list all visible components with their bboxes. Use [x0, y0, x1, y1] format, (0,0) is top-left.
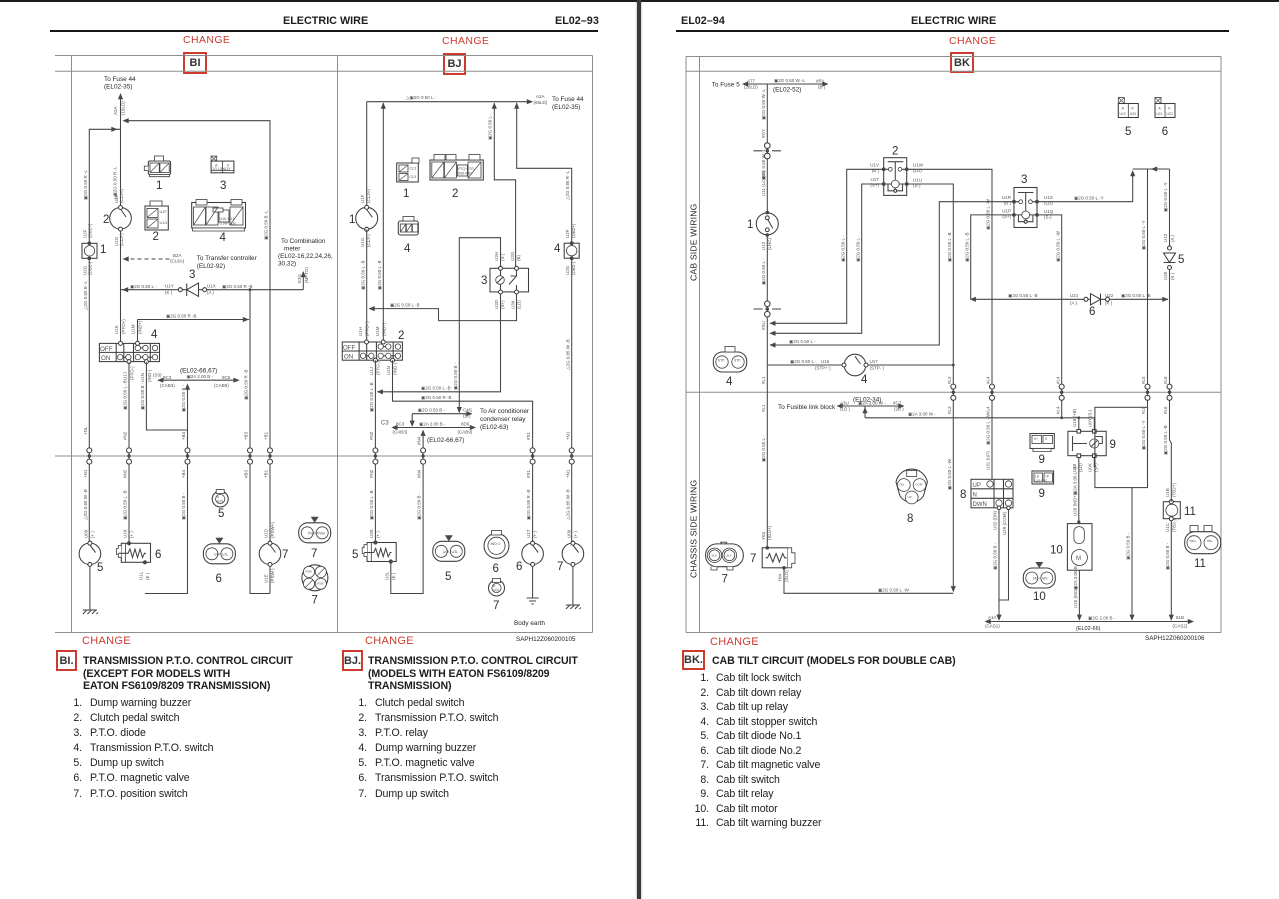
ground: BJ dump up switch earth — [566, 605, 581, 609]
connector face 1 BI — [144, 156, 170, 177]
svg-text:U31 (UP): U31 (UP) — [986, 451, 991, 470]
wire: BK relay9 S- stub — [1093, 418, 1095, 430]
svg-text:#L1: #L1 — [761, 376, 766, 384]
svg-text:5: 5 — [218, 508, 224, 520]
svg-text:PSW: PSW — [317, 531, 326, 535]
svg-text:TB2+: TB2+ — [1190, 539, 1198, 543]
component 1 BK: cab tilt lock switch — [756, 211, 778, 237]
svg-text:C4G: C4G — [463, 408, 473, 413]
svg-text:U3G: U3G — [510, 251, 515, 261]
svg-text:30,32): 30,32) — [278, 261, 296, 268]
svg-text:▣2G 0.50 L -: ▣2G 0.50 L - — [130, 284, 157, 289]
svg-text:(B-): (B-) — [463, 414, 471, 419]
svg-text:To Combination: To Combination — [281, 238, 326, 245]
svg-text:▣2G 0.50 B -L: ▣2G 0.50 B -L — [264, 210, 269, 240]
svg-text:Body earth: Body earth — [514, 620, 545, 627]
svg-text:△2G 0.50 B -L: △2G 0.50 B -L — [83, 281, 88, 310]
svg-text:▣2G 0.50 L -Y: ▣2G 0.50 L -Y — [1074, 196, 1104, 201]
svg-text:7: 7 — [557, 561, 563, 573]
svg-text:M: M — [1076, 556, 1081, 562]
component 4 BK: cab tilt stopper switch row — [767, 364, 953, 366]
svg-text:(CL3+): (CL3+) — [119, 189, 124, 203]
svg-text:U1F: U1F — [360, 194, 365, 203]
svg-text:(CAS2): (CAS2) — [1173, 624, 1188, 629]
svg-text:(S3): (S3) — [153, 373, 162, 378]
svg-text:(CAB3): (CAB3) — [160, 383, 175, 388]
wire: BI diode output down to position switch loop — [250, 290, 270, 594]
wire: BK valve return to chassis — [784, 569, 953, 593]
svg-text:A2A: A2A — [113, 106, 118, 115]
red box BK. (bottom) — [682, 650, 705, 670]
svg-text:UP: UP — [973, 483, 981, 489]
wire: BI IND vertical into switch — [137, 320, 139, 344]
svg-text:#L2: #L2 — [947, 376, 952, 384]
svg-text:(B): (B) — [516, 255, 521, 262]
wire: BK relay2 S- wire down — [907, 184, 954, 591]
svg-text:U1T: U1T — [526, 529, 531, 538]
connector pair: BI left wire at split — [87, 448, 92, 464]
svg-text:(EL02-35): (EL02-35) — [104, 84, 132, 91]
wire: BI branch to buzzer (2G 0.50 R -L) — [89, 129, 120, 243]
svg-text:#L6: #L6 — [1163, 376, 1168, 384]
svg-text:1: 1 — [100, 244, 106, 256]
svg-text:▣2G 0.50 L -: ▣2G 0.50 L - — [855, 235, 860, 262]
svg-text:U1F: U1F — [160, 210, 168, 214]
svg-text:#L4: #L4 — [986, 376, 991, 384]
svg-text:▣2G 0.50 L -: ▣2G 0.50 L - — [488, 113, 493, 140]
wire: BK motor to bottom rail — [1078, 570, 1080, 619]
svg-text:U09: U09 — [84, 529, 89, 538]
svg-text:U1T: U1T — [870, 177, 879, 182]
svg-text:(E ): (E ) — [391, 572, 396, 580]
connector pair: BJ ind wire at split — [530, 448, 535, 464]
svg-text:N: N — [973, 492, 977, 498]
svg-text:(B ): (B ) — [872, 168, 880, 173]
wire: BK drop to bottom rail from unit — [1131, 488, 1133, 620]
frame: left page header band bottom rule — [55, 70, 593, 72]
svg-text:9: 9 — [1039, 454, 1045, 466]
svg-text:U2G: U2G — [565, 265, 570, 275]
svg-text:2: 2 — [892, 146, 898, 158]
svg-text:U21: U21 — [1070, 293, 1079, 298]
component 2 BK: cab tilt down relay — [870, 158, 924, 196]
svg-text:4: 4 — [220, 232, 227, 244]
svg-text:#L4: #L4 — [1055, 406, 1060, 414]
svg-text:U0X: U0X — [1088, 463, 1093, 472]
red box BJ (top) — [443, 53, 466, 75]
wire: BK relay2 LD to tilt switch UP — [907, 169, 992, 479]
component 2 BJ: transmission P.T.O. switch (OFF/ON) — [342, 321, 402, 362]
svg-text:▣2G 0.50 R -B: ▣2G 0.50 R -B — [166, 314, 197, 319]
svg-text:ON: ON — [344, 354, 354, 361]
component 11 BK: cab tilt warning buzzer — [1163, 483, 1180, 532]
wire: BK relay3 B wrap to main — [771, 202, 1015, 345]
svg-text:U12: U12 — [761, 241, 766, 250]
svg-text:U1L: U1L — [222, 553, 228, 557]
svg-text:#L6: #L6 — [1163, 406, 1168, 414]
svg-text:▣2G 0.50 L -W: ▣2G 0.50 L -W — [1055, 230, 1060, 262]
wire: BI diode row horizontal — [121, 289, 304, 291]
svg-text:U09: U09 — [217, 499, 223, 503]
svg-text:#GY: #GY — [761, 129, 766, 138]
frame: right page label strip divider — [699, 57, 701, 633]
wire: BI dashed line to transfer controller — [124, 258, 172, 260]
svg-text:8C5: 8C5 — [222, 375, 231, 380]
svg-text:COM: COM — [915, 483, 923, 487]
svg-text:(19LD): (19LD) — [121, 101, 126, 115]
svg-text:U1D: U1D — [264, 528, 269, 538]
svg-text:+N1: +N1 — [83, 469, 88, 478]
svg-text:U1Y: U1Y — [224, 167, 231, 171]
svg-text:▣2G 0.50 L -B: ▣2G 0.50 L -B — [123, 380, 128, 410]
svg-text:7: 7 — [282, 549, 288, 561]
connector pair: BK rail drop at split — [1145, 384, 1150, 400]
svg-text:▣2G 0.50 B -: ▣2G 0.50 B - — [1165, 542, 1170, 570]
svg-text:▣2G 0.50 B -: ▣2G 0.50 B - — [453, 362, 458, 390]
connector pair: BI position switch wire at split — [268, 448, 273, 464]
ground: BI dump up switch earth — [83, 610, 98, 614]
svg-text:U1G: U1G — [160, 221, 168, 225]
svg-text:U09: U09 — [493, 588, 499, 592]
frame: right page header band top rule — [686, 56, 1221, 58]
connector face 4 BJ — [398, 217, 418, 236]
svg-text:U1K: U1K — [123, 529, 128, 538]
svg-text:(IND-): (IND-) — [393, 362, 398, 375]
svg-text:#L4: #L4 — [986, 406, 991, 414]
svg-text:▣2A 3.00 B -: ▣2A 3.00 B - — [1073, 563, 1078, 590]
svg-text:U1X: U1X — [207, 284, 216, 289]
frame: left page header band top rule — [55, 55, 593, 57]
svg-text:(EL02-52): (EL02-52) — [773, 87, 801, 94]
connector face 2 BI — [145, 201, 168, 230]
svg-text:#L3: #L3 — [947, 406, 952, 414]
svg-text:U3K: U3K — [511, 300, 516, 309]
svg-text:To Transfer controller: To Transfer controller — [197, 255, 258, 262]
svg-text:#S1: #S1 — [526, 469, 531, 478]
svg-text:+B1: +B1 — [264, 469, 269, 478]
svg-text:U09: U09 — [567, 529, 572, 538]
svg-text:(LD): (LD) — [913, 168, 922, 173]
svg-text:(K ): (K ) — [1170, 272, 1175, 280]
wire: BI cab harness riser — [145, 385, 188, 594]
top black border line — [0, 0, 1279, 2]
svg-text:C3: C3 — [381, 421, 389, 427]
svg-text:U26 (MO+): U26 (MO+) — [1072, 493, 1077, 516]
svg-text:(CL6A): (CL6A) — [170, 259, 185, 264]
svg-text:To Fuse 44: To Fuse 44 — [552, 96, 584, 103]
svg-text:IND·IND: IND·IND — [458, 172, 472, 176]
svg-text:STP: STP — [734, 359, 740, 363]
svg-text:MO-: MO- — [1042, 577, 1048, 581]
center page divider bar — [637, 0, 642, 899]
connector face 7b BI (round four-pin) — [302, 565, 328, 591]
svg-text:U20: U20 — [1130, 112, 1136, 116]
connector face 7 BK (oval two-pin) — [706, 542, 744, 570]
svg-text:6: 6 — [493, 563, 499, 575]
svg-text:(PTO-): (PTO-) — [376, 361, 381, 375]
svg-text:(LD): (LD) — [517, 300, 522, 309]
svg-text:CL3: CL3 — [410, 167, 417, 171]
svg-text:Y04: Y04 — [761, 531, 766, 540]
wire: BI PTO- down to magnetic valve — [128, 362, 130, 543]
svg-text:#N4: #N4 — [417, 436, 422, 445]
svg-text:▣2G 0.50 L -: ▣2G 0.50 L - — [790, 359, 817, 364]
svg-text:To Air conditioner: To Air conditioner — [480, 408, 530, 415]
svg-text:2: 2 — [452, 188, 458, 200]
svg-text:#N2: #N2 — [123, 469, 128, 478]
svg-text:U3H: U3H — [494, 252, 499, 261]
connector pair: BI diode loop wire at split — [248, 448, 253, 464]
svg-text:PSW: PSW — [308, 531, 317, 535]
svg-text:▣2G 0.50 L -B: ▣2G 0.50 L -B — [1121, 293, 1151, 298]
svg-text:1: 1 — [156, 180, 162, 192]
svg-text:(IND-): (IND-) — [147, 369, 152, 382]
svg-text:UP: UP — [908, 495, 912, 499]
svg-text:2: 2 — [153, 231, 159, 243]
svg-text:▣2G 0.50 L -: ▣2G 0.50 L - — [761, 258, 766, 285]
wire: BI IND- jog to buzzer line — [146, 362, 187, 430]
svg-text:(PTO-): (PTO-) — [130, 366, 135, 380]
wire: BK tilt switch DN drop — [998, 510, 1000, 620]
connector face 2 BJ — [430, 155, 483, 181]
svg-text:U0Y (S-): U0Y (S-) — [1088, 409, 1093, 427]
svg-text:OFF: OFF — [343, 344, 356, 351]
svg-text:8D6: 8D6 — [461, 422, 470, 427]
svg-text:U1U: U1U — [913, 178, 922, 183]
svg-text:7: 7 — [312, 595, 318, 607]
component 1 BI: dump warning buzzer — [82, 223, 97, 275]
svg-text:1: 1 — [403, 188, 409, 200]
svg-text:10: 10 — [1050, 545, 1063, 557]
svg-text:(DB2-): (DB2-) — [88, 261, 93, 275]
component 7 BK: cab tilt magnetic valve — [762, 546, 795, 582]
wire: BJ PTO- drop to valve 5 — [374, 360, 376, 542]
svg-text:A2A: A2A — [536, 94, 545, 99]
svg-text:+B4: +B4 — [181, 469, 186, 478]
svg-text:U1S: U1S — [1044, 195, 1053, 200]
svg-text:▣2G 0.50 L -B: ▣2G 0.50 L -B — [123, 490, 128, 520]
svg-text:9: 9 — [1110, 439, 1116, 451]
svg-text:(A ): (A ) — [1170, 234, 1175, 242]
svg-text:11: 11 — [1184, 506, 1196, 518]
svg-text:(+ ): (+ ) — [376, 531, 381, 538]
svg-text:meter: meter — [284, 246, 301, 253]
svg-text:▣2G 0.50 L -W: ▣2G 0.50 L -W — [986, 198, 991, 230]
connector face 4 BK (oval two-pin) — [713, 347, 746, 373]
svg-text:▣2G 0.50 L -B: ▣2G 0.50 L -B — [361, 260, 366, 290]
wire: BJ clutch switch drop — [366, 102, 368, 208]
svg-text:3: 3 — [481, 275, 487, 287]
svg-text:U1Y: U1Y — [165, 284, 174, 289]
svg-text:6: 6 — [155, 549, 161, 561]
svg-text:U1C: U1C — [1165, 522, 1170, 532]
svg-text:PSW: PSW — [306, 570, 313, 574]
component 10 BK: cab tilt motor — [1067, 524, 1092, 571]
svg-text:(LNC): (LNC) — [767, 237, 772, 250]
svg-text:U1N: U1N — [140, 373, 145, 382]
svg-text:DWN: DWN — [973, 502, 987, 508]
svg-text:(+ ): (+ ) — [129, 531, 134, 538]
svg-text:ON: ON — [101, 355, 111, 362]
svg-text:U1K·U1J: U1K·U1J — [220, 217, 235, 221]
ground: BJ body earth — [527, 598, 539, 604]
wire: BK tilt switch COM drop — [999, 510, 1009, 600]
svg-text:#L5: #L5 — [1141, 406, 1146, 414]
wire: BK main cab drop — [766, 84, 768, 547]
svg-text:4: 4 — [726, 376, 733, 388]
svg-text:B2A: B2A — [173, 253, 182, 258]
svg-text:▣2G 0.50 L -B: ▣2G 0.50 L -B — [369, 382, 374, 412]
svg-text:▣2G 0.50 R -B: ▣2G 0.50 R -B — [222, 284, 253, 289]
svg-text:(IND+): (IND+) — [382, 322, 387, 336]
svg-text:(STP- ): (STP- ) — [870, 366, 885, 371]
svg-text:E3G: E3G — [297, 273, 302, 283]
svg-text:▣2G 0.50 B -: ▣2G 0.50 B - — [181, 492, 186, 520]
svg-text:▣2G 0.50 L -B: ▣2G 0.50 L -B — [1163, 425, 1168, 455]
component 5 BJ: P.T.O. magnetic valve — [362, 529, 396, 580]
svg-text:(EL02-35): (EL02-35) — [552, 104, 580, 111]
svg-text:U3L: U3L — [452, 550, 458, 554]
svg-text:U18 (+B): U18 (+B) — [1072, 408, 1077, 427]
svg-text:condenser relay: condenser relay — [480, 416, 526, 423]
red box BJ. (bottom) — [342, 650, 363, 671]
svg-text:8C3: 8C3 — [396, 422, 405, 427]
svg-text:To Fusible link block: To Fusible link block — [778, 404, 836, 411]
svg-text:7: 7 — [750, 553, 756, 565]
svg-text:▣2G 0.50 L -B: ▣2G 0.50 L -B — [390, 303, 420, 308]
frame: left page bottom rule — [55, 632, 593, 634]
wire: BI main feed vertical A2A — [120, 94, 122, 344]
svg-text:4: 4 — [554, 243, 561, 255]
connector pair: BK S- wire at split — [951, 384, 956, 400]
svg-text:11: 11 — [1194, 558, 1206, 570]
frame: right page header band bottom rule — [686, 70, 1221, 72]
svg-text:10: 10 — [1033, 591, 1046, 603]
svg-text:3: 3 — [220, 180, 226, 192]
wire: BJ body harness link (8C3/8D6) — [393, 427, 476, 429]
connector face 7 BI (oval two-pin) — [299, 517, 331, 543]
svg-text:(EL02-66,67): (EL02-66,67) — [427, 437, 464, 444]
svg-text:4: 4 — [404, 243, 411, 255]
svg-text:▣2G 0.50 B -: ▣2G 0.50 B - — [181, 384, 186, 412]
svg-text:SLV: SLV — [726, 553, 731, 557]
wire: BJ buzzer to dump up switch 7 — [571, 258, 573, 543]
svg-text:3: 3 — [189, 269, 195, 281]
svg-text:(CAB9): (CAB9) — [458, 430, 473, 435]
svg-text:#N2: #N2 — [369, 469, 374, 478]
svg-text:(+ ): (+ ) — [533, 531, 538, 538]
svg-text:CL3: CL3 — [410, 175, 417, 179]
connector face 5 BJ (oval two-pin) — [433, 535, 465, 561]
svg-text:(STP+ ): (STP+ ) — [815, 366, 831, 371]
svg-text:▣2G 0.50 L -B: ▣2G 0.50 L -B — [377, 260, 382, 290]
red box BI. (bottom) — [56, 650, 77, 671]
wire: BK rail drop right through diode 5 — [1169, 169, 1171, 392]
connector pair: BI riser at split — [185, 448, 190, 464]
svg-text:+B3: +B3 — [244, 431, 249, 440]
svg-text:▣2G 0.50 L -Y: ▣2G 0.50 L -Y — [1141, 220, 1146, 250]
svg-text:(K ): (K ) — [165, 290, 173, 295]
svg-text:2: 2 — [398, 330, 404, 342]
wire: BJ IND- jog down and right — [393, 360, 533, 543]
svg-text:6: 6 — [1089, 306, 1095, 318]
component 3 BI: P.T.O. diode — [178, 283, 206, 296]
connector face 9a BK — [1030, 434, 1054, 452]
connector face 1 BJ — [397, 158, 419, 182]
svg-text:(IND+): (IND+) — [138, 320, 143, 334]
svg-text:6: 6 — [216, 573, 222, 585]
connector face 7 BJ (small round) — [489, 579, 505, 597]
wire: BK relay9 LD to motor — [1078, 458, 1080, 524]
connector face 3 BI — [211, 156, 234, 173]
wire: BI buzzer to dump up switch — [88, 258, 90, 543]
svg-text:CAB SIDE WIRING: CAB SIDE WIRING — [689, 203, 699, 281]
svg-text:#S1: #S1 — [526, 431, 531, 440]
component 6 BK: cab tilt diode No.2 — [1084, 294, 1110, 305]
svg-text:U3K: U3K — [369, 529, 374, 538]
connector pair: BJ buzzer wire at split — [569, 448, 574, 464]
wire: BJ clutch switch to PTO switch — [366, 229, 368, 342]
svg-text:6: 6 — [1162, 126, 1168, 138]
svg-text:U2F: U2F — [565, 229, 570, 238]
svg-text:(DB2+): (DB2+) — [571, 223, 576, 238]
wire: BK fusible feed to relay 9 — [865, 406, 1095, 418]
wire: BJ relay S+ drop to PTO- rail — [378, 294, 501, 392]
svg-text:To Fuse 5: To Fuse 5 — [712, 82, 741, 89]
wire: BK relay3 S+ wrap down — [971, 215, 1014, 299]
connector pair: BI valve wire at split — [127, 448, 132, 464]
svg-text:4: 4 — [861, 374, 868, 386]
svg-text:U21: U21 — [1156, 112, 1162, 116]
wire: BK fuse feed rail — [743, 83, 827, 85]
svg-text:U1W: U1W — [913, 163, 924, 168]
component 3 BK: cab tilt up relay — [1002, 188, 1054, 228]
svg-text:8C3: 8C3 — [163, 375, 172, 380]
svg-text:PSW: PSW — [317, 581, 324, 585]
svg-text:#N4: #N4 — [417, 469, 422, 478]
node: split-line connector pin ids (below line) — [83, 406, 1168, 478]
frame: left page left border — [71, 56, 73, 633]
component 6 BJ: transmission P.T.O. switch (IND) — [522, 529, 544, 566]
svg-text:(CL3+): (CL3+) — [366, 189, 371, 203]
wire: BI dump up switch to ground — [89, 566, 91, 610]
svg-text:U1Q: U1Q — [1044, 209, 1054, 214]
wire: BK relay9 +B stub — [1078, 418, 1080, 430]
svg-text:▣2G 0.50 R -B: ▣2G 0.50 R -B — [421, 395, 452, 400]
svg-text:STP: STP — [718, 359, 724, 363]
svg-text:U3D: U3D — [494, 299, 499, 309]
component 4 BI: transmission P.T.O. switch (OFF/ON) — [99, 341, 159, 363]
svg-text:7: 7 — [493, 600, 499, 612]
svg-text:▣2G 2.00 B -: ▣2G 2.00 B - — [1088, 616, 1116, 621]
svg-text:6: 6 — [516, 561, 522, 573]
svg-text:(EL02-16,22,24,26,: (EL02-16,22,24,26, — [278, 253, 333, 260]
svg-text:▣2G 0.50 B -: ▣2G 0.50 B - — [140, 382, 145, 410]
svg-text:U1V: U1V — [870, 163, 879, 168]
svg-text:(65LD): (65LD) — [534, 100, 548, 105]
svg-text:(PSW+): (PSW+) — [270, 522, 275, 538]
connector pair: BK S- relay3 wire at split — [1059, 384, 1064, 400]
component 1 BJ: clutch pedal switch — [356, 189, 378, 247]
svg-text:5: 5 — [1178, 254, 1184, 266]
svg-text:U1R: U1R — [1002, 195, 1012, 200]
svg-text:▣2G 0.50 L -B: ▣2G 0.50 L -B — [369, 490, 374, 520]
svg-text:4: 4 — [151, 329, 158, 341]
wire: BK relay2 S+ wire wrap to main — [771, 184, 884, 333]
svg-text:1: 1 — [349, 214, 355, 226]
wire: BK fusible link row — [838, 405, 904, 407]
svg-text:▣2G 0.50 W -L: ▣2G 0.50 W -L — [761, 88, 766, 120]
